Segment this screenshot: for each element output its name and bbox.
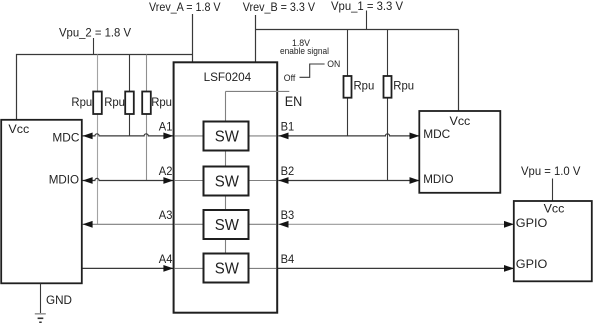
svg-text:Rpu: Rpu	[71, 95, 92, 109]
svg-text:GPIO: GPIO	[516, 216, 548, 230]
pin label Vcc (left block)	[8, 122, 29, 136]
svg-text:B1: B1	[281, 119, 295, 133]
arrowhead row1 into right block MDC	[410, 133, 420, 140]
wire row1 inside U1	[175, 135, 276, 137]
label Rpu (R5)	[393, 78, 414, 92]
svg-text:Vpu_1 = 3.3 V: Vpu_1 = 3.3 V	[331, 0, 404, 13]
pin label B4	[281, 252, 295, 266]
svg-text:Rpu: Rpu	[104, 95, 125, 109]
arrowhead row3 into U1 pin B3	[279, 221, 289, 228]
pin label B2	[281, 164, 295, 178]
arrowhead row2 into right block MDIO	[410, 177, 420, 184]
arrowhead row3 into left block	[83, 221, 93, 228]
arrowhead row4 into U1 pin A4	[163, 265, 173, 272]
svg-text:Vcc: Vcc	[8, 122, 29, 136]
label Rpu (R1)	[71, 95, 92, 109]
wire resistor R3 column to node A2	[146, 55, 148, 181]
left device block	[1, 120, 82, 283]
GPIO device block	[514, 201, 592, 281]
svg-text:Vpu_2 = 1.8 V: Vpu_2 = 1.8 V	[59, 26, 132, 40]
svg-text:MDC: MDC	[423, 127, 450, 141]
svg-text:MDIO: MDIO	[49, 173, 80, 187]
svg-text:GPIO: GPIO	[516, 257, 548, 271]
pin label A4	[159, 252, 173, 266]
wire 3.3 V rail drop to right block Vcc	[458, 30, 460, 112]
wire Vpu_2 1.8 V rail with drop to left block Vcc	[17, 55, 193, 120]
svg-text:MDIO: MDIO	[423, 172, 454, 186]
switch SW3	[204, 210, 249, 239]
pin label MDIO (left block)	[49, 173, 80, 187]
svg-text:Vcc: Vcc	[544, 202, 565, 216]
svg-text:SW: SW	[215, 128, 240, 145]
svg-text:enable signal: enable signal	[280, 46, 329, 57]
svg-text:MDC: MDC	[52, 131, 79, 145]
wire EN horizontal lead	[226, 90, 290, 92]
wire MDC row1 left with hops over R1,R3 columns	[82, 134, 174, 136]
svg-text:EN: EN	[285, 94, 303, 109]
label ON	[327, 59, 340, 70]
switch position glyph Off/ON selector	[300, 64, 325, 77]
wire MDIO row2 left with hop over R1 column	[82, 178, 174, 180]
pin label MDC (left block)	[52, 131, 79, 145]
label 1.8V enable signal annotation	[280, 38, 329, 57]
wire B3 row to GPIO block	[278, 223, 514, 225]
wire B4 row to GPIO block	[277, 267, 514, 269]
pin label EN	[285, 94, 303, 109]
wire EN control vertical linking switches	[225, 91, 227, 253]
resistor R4 Rpu	[344, 76, 352, 98]
label LSF0204	[204, 70, 252, 84]
svg-text:GND: GND	[46, 293, 72, 307]
wire Vrev_A drop to U1 top	[192, 14, 194, 62]
arrowhead row4 into GPIO block	[504, 265, 514, 272]
svg-text:SW: SW	[215, 173, 240, 190]
pin label A1	[159, 119, 173, 133]
svg-text:A1: A1	[159, 119, 173, 133]
svg-text:B3: B3	[281, 208, 295, 222]
wire resistor R1 column to node A3	[97, 55, 99, 225]
label Off	[284, 73, 296, 84]
pin label A2	[159, 164, 173, 178]
wire row4 A4 left segment	[82, 267, 174, 269]
svg-text:SW: SW	[215, 217, 240, 234]
svg-text:A3: A3	[159, 208, 173, 222]
resistor R2 Rpu	[125, 92, 134, 115]
IC U1 LSF0204 body	[174, 62, 278, 312]
wire Vrev_B drop to U1 top	[255, 15, 257, 62]
pin label GPIO (row 3)	[516, 216, 548, 230]
svg-text:Vcc: Vcc	[450, 114, 471, 128]
wire Vpu_2 label tick	[93, 38, 95, 55]
wire B2 row right segment	[278, 180, 419, 182]
wire resistor R5 column to node B2	[387, 30, 389, 181]
pin label Vcc (GPIO block)	[544, 202, 565, 216]
wire row2 inside U1	[175, 180, 276, 182]
svg-text:ON: ON	[327, 59, 340, 70]
wire Vpu_1 label tick	[366, 11, 368, 30]
pin label GPIO (row 4)	[516, 257, 548, 271]
arrowhead row1 into left block MDC	[83, 133, 93, 140]
wire Vpu tick to GPIO block Vcc	[552, 179, 554, 202]
pin label B3	[281, 208, 295, 222]
wire resistor R4 column to node B1	[347, 30, 349, 136]
switch SW4	[204, 254, 249, 283]
label Vpu_1 = 3.3 V	[331, 0, 404, 13]
resistor R1 Rpu	[93, 92, 102, 115]
arrowhead row1 into U1 pin B1	[279, 133, 289, 140]
label Vrev_B = 3.3 V	[243, 0, 316, 14]
svg-text:Vpu = 1.0 V: Vpu = 1.0 V	[521, 164, 581, 178]
wire resistor R2 column to node A1	[129, 55, 131, 136]
wire row4 inside U1	[175, 267, 276, 269]
label Rpu (R2)	[104, 95, 125, 109]
label GND	[46, 293, 72, 307]
svg-text:Rpu: Rpu	[393, 78, 414, 92]
wire 3.3 V rail Vpu_1 net	[256, 29, 459, 31]
wire row3 A3 left segment	[82, 223, 174, 225]
svg-text:A4: A4	[159, 252, 173, 266]
label Rpu (R3)	[151, 95, 172, 109]
switch SW1	[204, 122, 249, 151]
resistor R5 Rpu	[384, 76, 392, 98]
wire GND stem	[40, 284, 42, 314]
arrowhead row1 into U1 pin A1	[163, 133, 173, 140]
pin label A3	[159, 208, 173, 222]
arrowhead row3 into GPIO block	[504, 221, 514, 228]
svg-text:B2: B2	[281, 164, 295, 178]
svg-text:Rpu: Rpu	[151, 95, 172, 109]
svg-text:A2: A2	[159, 164, 173, 178]
ground symbol	[35, 314, 46, 323]
resistor R3 Rpu	[142, 92, 151, 115]
label Vpu = 1.0 V	[521, 164, 581, 178]
svg-text:LSF0204: LSF0204	[204, 70, 252, 84]
pin label MDIO (right block)	[423, 172, 454, 186]
svg-text:Vrev_B = 3.3 V: Vrev_B = 3.3 V	[243, 0, 316, 14]
wire row3 inside U1	[175, 223, 276, 225]
svg-text:B4: B4	[281, 252, 295, 266]
right MDC/MDIO device block	[419, 111, 500, 193]
label Rpu (R4)	[354, 78, 375, 92]
arrowhead row2 into U1 pin A2	[163, 177, 173, 184]
label Vpu_2 = 1.8 V	[59, 26, 132, 40]
arrowhead row2 into left block MDIO	[83, 177, 93, 184]
pin label B1	[281, 119, 295, 133]
arrowhead row2 into U1 pin B2	[279, 177, 289, 184]
svg-text:Vrev_A = 1.8 V: Vrev_A = 1.8 V	[149, 0, 221, 14]
svg-text:Off: Off	[284, 73, 296, 84]
switch SW2	[204, 167, 249, 196]
label Vrev_A = 1.8 V	[149, 0, 221, 14]
svg-text:Rpu: Rpu	[354, 78, 375, 92]
svg-text:SW: SW	[215, 260, 240, 277]
pin label Vcc (right block)	[450, 114, 471, 128]
wire B1 row right with hop over R5 column	[278, 134, 419, 136]
pin label MDC (right block)	[423, 127, 450, 141]
